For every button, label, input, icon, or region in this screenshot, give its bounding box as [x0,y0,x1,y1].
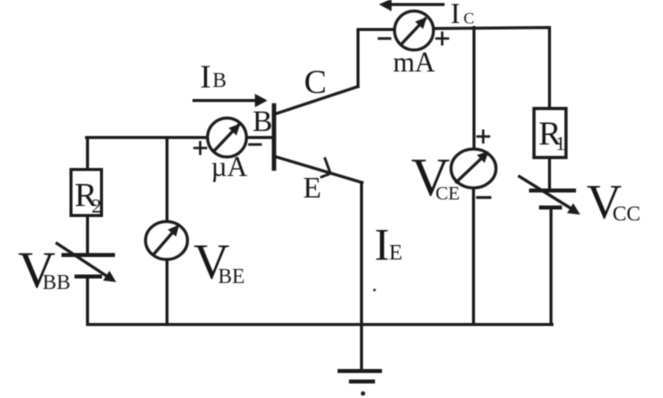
svg-text:C: C [304,64,327,101]
label uA plus [195,142,207,154]
transistor Q1 collector lead [275,87,358,115]
svg-text:B: B [213,68,227,92]
wire bottom rail [88,323,552,326]
label mA minus [379,37,390,40]
svg-text:CE: CE [436,184,460,205]
svg-text:E: E [389,240,402,265]
wire VCE branch upper [473,28,476,151]
wire left rail (top corner down through R2 position to VBB top plate) [86,138,89,256]
svg-text:1: 1 [556,133,566,155]
svg-text:CC: CC [613,202,641,226]
wire emitter drop to ground [360,183,363,372]
svg-text:I: I [451,0,461,30]
svg-text:C: C [464,11,475,28]
wire VCC bottom plate to bottom rail [550,208,553,325]
arrow IC [389,3,443,6]
wire mA meter to right rail [434,28,550,191]
wire left rail lower (VBB bottom plate to bottom rail) [86,277,89,325]
wire VCE branch lower [472,188,475,325]
battery VBB variable arrow [57,244,112,280]
svg-text:µA: µA [211,152,248,183]
transistor Q1 emitter arrow [322,159,331,178]
voltmeter VCE [451,149,496,188]
ground [340,371,381,382]
label VCE minus [478,196,491,199]
arrow IB [194,99,260,102]
label VCE plus [478,131,490,143]
battery VBB [64,255,114,277]
svg-text:B: B [253,105,273,138]
wire VBE branch lower [166,259,169,325]
svg-text:I: I [200,60,211,96]
ammeter mA [395,11,434,50]
wire VBE branch upper [166,138,169,223]
wire collector riser to mA meter [358,30,395,87]
battery VCC [531,191,574,208]
stray dot [373,289,376,292]
svg-text:BB: BB [43,270,71,294]
label mA plus [437,33,449,45]
svg-text:mA: mA [393,48,436,79]
battery VCC variable arrow [520,177,577,212]
svg-text:2: 2 [92,196,102,218]
svg-text:I: I [375,220,390,270]
ammeter uA [208,118,247,157]
voltmeter VBE [146,222,188,260]
transistor Q1 base bar [272,106,276,169]
resistor R2 [71,170,102,216]
resistor R1 [534,109,566,158]
wire uA meter to base [246,136,273,139]
wire top-left horizontal (left rail to uA meter) [87,136,209,139]
svg-text:BE: BE [218,264,245,288]
svg-text:E: E [303,172,321,205]
transistor Q1 emitter lead [275,157,362,183]
label uA minus [250,143,261,146]
